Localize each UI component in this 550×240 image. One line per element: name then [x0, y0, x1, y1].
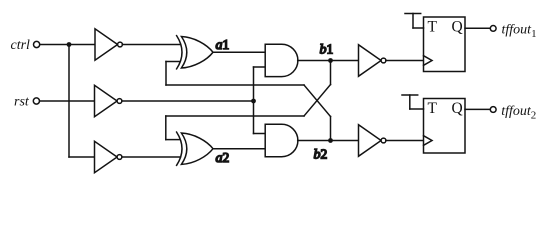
- node tffout1 terminal: [490, 26, 496, 32]
- svg-text:Q: Q: [452, 18, 463, 35]
- svg-text:ctrl: ctrl: [11, 38, 31, 53]
- wire FF2 T tie-high bar: [402, 94, 418, 96]
- wire inverter U4 output to FF1 clock: [386, 60, 424, 62]
- inverter U2 (rst, middle): [95, 85, 122, 116]
- wire b2 tap vertical: [330, 117, 332, 141]
- wire FF2 T tie vertical: [409, 95, 411, 109]
- svg-text:tffout2: tffout2: [501, 104, 536, 122]
- xor-gate X2: [177, 132, 213, 165]
- pin FF2 clock chevron: [424, 136, 433, 146]
- inverter U3 (ctrl branch, bottom): [95, 141, 122, 172]
- node tffout2 terminal: [490, 107, 496, 113]
- xor-gate X1: [177, 36, 213, 69]
- wire XOR X1 output a1 to AND A1: [213, 51, 266, 53]
- wire b2 feedback to XOR X1 input: [166, 61, 180, 63]
- wire rst to AND A1 lower input: [254, 66, 266, 68]
- junction ctrl branch dot: [67, 42, 72, 47]
- wire inverter U5 output to FF2 clock: [386, 140, 424, 142]
- wire ctrl branch vertical: [68, 45, 70, 158]
- node b2 junction dot: [328, 138, 333, 143]
- wire ctrl lead to inverter U1: [40, 44, 95, 46]
- wire b1 feedback row: [166, 115, 304, 117]
- wire rst lead to inverter U2: [40, 100, 95, 102]
- wire inverter U2 output to rst node: [122, 100, 254, 102]
- wire FF1 T tie-high bar: [405, 13, 421, 15]
- svg-text:b2: b2: [314, 147, 328, 163]
- svg-text:Q: Q: [452, 100, 463, 117]
- wire b2 feedback rise: [165, 62, 167, 86]
- svg-text:b1: b1: [320, 42, 334, 58]
- node b1 junction dot: [328, 58, 333, 63]
- wire rst vertical branch: [253, 67, 255, 134]
- wire FF2 Q output lead: [465, 108, 490, 110]
- svg-text:rst: rst: [14, 94, 30, 109]
- wire FF1 T tie horizontal: [413, 27, 424, 29]
- wire rst to AND A2 upper input: [254, 133, 266, 135]
- wire inverter U1 output to XOR X1 input: [122, 44, 180, 46]
- inverter U1 (ctrl, top): [95, 29, 122, 60]
- wire b1 feedback to XOR X2 input: [166, 139, 180, 141]
- inverter U4 (b1 to FF1 clock): [359, 45, 386, 77]
- svg-text:a2: a2: [216, 150, 230, 166]
- junction rst node dot: [251, 99, 256, 104]
- flip-flop FF2 box: [424, 99, 466, 154]
- wire b1 crossover diagonal: [304, 85, 331, 117]
- wire b1 tap vertical: [330, 61, 332, 85]
- wire b2 feedback row: [166, 84, 304, 86]
- flip-flop FF1 box: [424, 17, 466, 72]
- node rst input terminal: [33, 98, 39, 104]
- wire XOR X2 output a2 to AND A2: [213, 148, 266, 150]
- svg-text:T: T: [428, 18, 438, 35]
- and-gate A1: [265, 44, 298, 76]
- wire FF1 T tie vertical: [412, 14, 414, 29]
- and-gate A2: [265, 124, 298, 156]
- wire FF2 T tie horizontal: [410, 108, 424, 110]
- wire FF1 Q output lead: [465, 27, 490, 29]
- wire ctrl branch to inverter U3: [69, 156, 95, 158]
- wire b2 crossover diagonal: [304, 85, 331, 117]
- svg-text:T: T: [428, 100, 438, 117]
- svg-text:tffout1: tffout1: [502, 23, 537, 41]
- node ctrl input terminal: [34, 41, 40, 47]
- pin FF1 clock chevron: [424, 56, 433, 66]
- wire inverter U3 output to XOR X2 input: [122, 156, 180, 158]
- wire AND A1 output b1 row: [298, 60, 359, 62]
- wire b1 feedback drop: [165, 116, 167, 140]
- inverter U5 (b2 to FF2 clock): [359, 125, 386, 157]
- svg-text:a1: a1: [216, 37, 230, 53]
- wire AND A2 output b2 row: [298, 140, 359, 142]
